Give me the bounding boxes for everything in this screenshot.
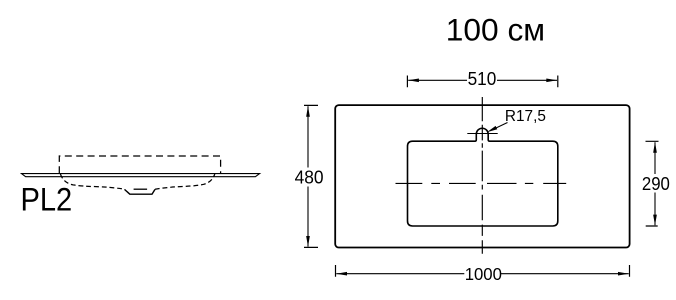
vertical centerline (dash-dot) xyxy=(481,97,483,254)
title 100 см xyxy=(446,11,545,47)
svg-text:290: 290 xyxy=(642,173,670,194)
svg-text:100 см: 100 см xyxy=(446,11,545,47)
svg-text:510: 510 xyxy=(468,69,497,89)
countertop outline (plan view) xyxy=(335,105,629,247)
leader R17,5 xyxy=(487,108,546,132)
svg-text:R17,5: R17,5 xyxy=(505,108,546,125)
faucet hole crosshair horizontal xyxy=(467,133,497,135)
dimension 290 (right) xyxy=(642,141,670,226)
dimension 510 (top) xyxy=(407,69,557,89)
svg-text:1000: 1000 xyxy=(465,264,502,284)
svg-text:PL2: PL2 xyxy=(21,182,73,218)
washbasin bowl hidden outline (dashed, side view) xyxy=(60,174,214,189)
sink cutout with faucet notch R17,5 (plan view) xyxy=(408,128,558,226)
washbasin rim hidden outline (dashed rectangle, side view) xyxy=(59,156,220,173)
dimension 1000 (bottom) xyxy=(336,264,630,284)
countertop slab (side view) xyxy=(22,174,260,177)
dimension 480 (left) xyxy=(295,105,324,247)
svg-text:480: 480 xyxy=(295,167,324,187)
horizontal centerline (dash-dot) xyxy=(396,182,567,184)
drain trapezoid (side view) xyxy=(125,189,156,194)
label PL2 xyxy=(21,182,73,218)
